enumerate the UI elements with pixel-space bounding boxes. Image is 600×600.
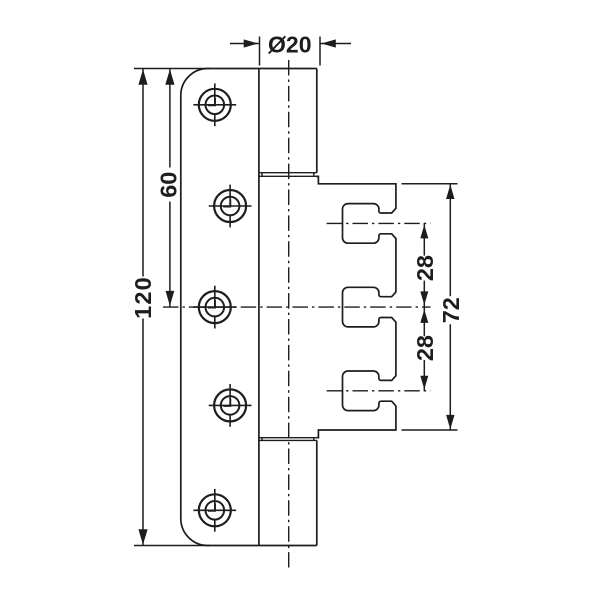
120 dimension [134,69,210,546]
knuckle bottom segment right edge [316,440,318,545]
diameter 20 dimension [230,37,351,66]
tab 3 centerline [327,390,431,392]
screw hole 5 [193,489,236,532]
knuckle vertical centerline [288,60,290,568]
svg-text:28: 28 [412,335,438,361]
svg-text:28: 28 [412,255,438,281]
screw hole 2 [209,185,252,228]
middle horizontal centerline [163,306,431,308]
hinge leaf outline [181,69,317,546]
tab 1 centerline [327,222,431,224]
knuckle top segment right edge [316,69,318,173]
screw hole 1 [193,83,236,126]
knuckle top joint [259,173,317,177]
svg-text:60: 60 [156,172,182,198]
28 dimensions [423,223,425,390]
screw hole 3 [193,286,236,329]
60 dimension [169,69,171,308]
frame wing with three hook tabs [316,176,396,437]
72 dimension [402,184,458,430]
leaf right edge / knuckle left edge [258,69,260,546]
svg-text:72: 72 [438,297,464,323]
screw hole 4 [209,384,252,427]
svg-text:O20: O20 [268,32,311,58]
knuckle bottom joint [259,438,317,441]
svg-text:120: 120 [130,276,156,319]
